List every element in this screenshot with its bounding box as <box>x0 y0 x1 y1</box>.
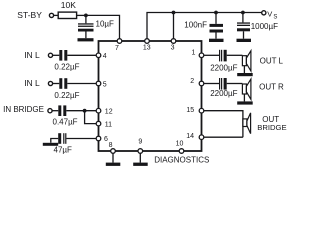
svg-text:7: 7 <box>115 45 119 52</box>
ground (pin 9) <box>133 163 148 166</box>
pin 12 <box>96 108 101 113</box>
svg-text:2: 2 <box>190 78 194 85</box>
node on Vs rail at pin 3 riser <box>172 11 176 15</box>
capacitor 2200uF (OUT L) <box>219 50 227 62</box>
pin 8 <box>111 149 116 154</box>
speaker OUT R <box>242 79 251 99</box>
terminal Vs <box>262 11 266 15</box>
terminal ST-BY <box>49 13 53 17</box>
pin 1 <box>199 53 204 58</box>
svg-text:9: 9 <box>138 138 142 145</box>
capacitor 100nF <box>210 24 224 33</box>
svg-text:8: 8 <box>109 142 113 149</box>
svg-text:13: 13 <box>143 45 151 52</box>
pin 6 <box>96 136 101 141</box>
wire pin 9 to ground <box>139 153 141 162</box>
svg-text:V: V <box>267 10 272 19</box>
svg-text:11: 11 <box>105 121 112 128</box>
node on Vs rail at 1000uF <box>241 11 245 15</box>
wire C 0.22uF to pin 4 <box>67 54 96 56</box>
wire pin 3 riser <box>173 13 175 39</box>
wire ST-BY terminal to R <box>54 14 58 16</box>
svg-text:47µF: 47µF <box>54 145 73 154</box>
wire C 1000uF to ground <box>243 31 245 38</box>
svg-text:OUT R: OUT R <box>259 83 284 92</box>
capacitor 0.22uF (lower) <box>59 78 67 89</box>
wire C 47uF to pin 6 <box>66 138 96 140</box>
svg-text:0.22µF: 0.22µF <box>54 63 79 72</box>
wire Vs rail to C 1000uF <box>242 13 244 23</box>
capacitor 10uF <box>78 23 94 31</box>
wire pin 2 to C 2200uF <box>204 83 219 85</box>
wire pin 1 to C 2200uF <box>204 54 219 56</box>
resistor 10K <box>58 12 76 18</box>
capacitor 2200uF (OUT R) <box>219 78 227 90</box>
IC U1 (power amplifier body) <box>99 41 202 151</box>
capacitor 47uF <box>58 133 66 144</box>
svg-text:OUT L: OUT L <box>260 56 284 65</box>
pin 13 <box>145 39 150 44</box>
pin 9 <box>138 149 143 154</box>
ground (speaker OUT L) <box>237 73 253 76</box>
wire C 2200uF to speaker OUT L <box>227 54 243 56</box>
node on Vs rail at 100nF <box>214 11 218 15</box>
ground (1000uF) <box>237 39 252 42</box>
svg-text:1: 1 <box>192 50 196 57</box>
svg-text:10µF: 10µF <box>96 19 115 28</box>
svg-text:5: 5 <box>103 82 107 89</box>
svg-text:IN L: IN L <box>24 78 40 88</box>
capacitor 1000uF <box>237 22 250 31</box>
svg-text:6: 6 <box>104 136 108 143</box>
wire R to node A <box>77 14 86 16</box>
terminal IN BRIDGE <box>48 109 52 113</box>
pin 14 <box>199 135 204 140</box>
pin 7 <box>117 39 122 44</box>
svg-text:2200µF: 2200µF <box>210 63 237 72</box>
svg-text:S: S <box>273 15 277 21</box>
svg-text:IN L: IN L <box>24 50 40 60</box>
pin 5 <box>96 81 101 86</box>
wire IN L to C 0.22uF <box>53 54 60 56</box>
wire C 10uF to ground <box>85 32 87 39</box>
svg-text:2200µF: 2200µF <box>210 89 237 98</box>
svg-text:0.47µF: 0.47µF <box>53 118 78 127</box>
pin 2 <box>199 81 204 86</box>
wire pin 15 to bridge speaker top <box>204 111 243 138</box>
wire speaker OUT R to ground <box>243 94 245 101</box>
wire IN L to C 0.22uF <box>53 83 60 85</box>
wire pin 8 to ground <box>112 153 114 162</box>
terminal IN L (lower) <box>48 81 52 85</box>
capacitor 0.47uF <box>58 105 66 116</box>
wire node A down to C 10uF <box>85 15 87 23</box>
wire C 100nF to ground <box>215 33 217 39</box>
wire speaker OUT L to ground <box>243 66 245 73</box>
pin 4 <box>96 53 101 58</box>
svg-text:15: 15 <box>186 107 194 114</box>
svg-text:14: 14 <box>186 133 194 140</box>
wire C 0.47uF to pin 12 <box>66 110 96 112</box>
svg-text:1000µF: 1000µF <box>251 22 278 31</box>
wire C 2200uF to speaker OUT R <box>227 83 243 85</box>
pin 10 <box>179 149 184 154</box>
ground (10uF) <box>78 38 94 41</box>
svg-text:0.22µF: 0.22µF <box>54 91 79 100</box>
pin 3 <box>171 39 176 44</box>
pin 15 <box>199 108 204 113</box>
ground (pin 8) <box>106 163 121 166</box>
svg-text:IN BRIDGE: IN BRIDGE <box>3 105 44 114</box>
node B (bridge input junction) <box>83 109 87 113</box>
ground (47uF) <box>43 143 58 146</box>
svg-text:4: 4 <box>103 53 107 60</box>
svg-text:100nF: 100nF <box>184 20 207 29</box>
svg-text:BRIDGE: BRIDGE <box>257 123 286 132</box>
svg-text:DIAGNOSTICS: DIAGNOSTICS <box>154 155 209 164</box>
ground (100nF) <box>209 39 224 42</box>
svg-text:10: 10 <box>176 141 184 148</box>
svg-text:ST-BY: ST-BY <box>17 10 42 20</box>
speaker OUT BRIDGE <box>243 113 251 134</box>
terminal IN L (upper) <box>48 53 52 57</box>
wire node B to pin 11 <box>85 111 97 124</box>
svg-text:3: 3 <box>171 45 175 52</box>
wire pin 14 to bridge speaker bottom <box>204 136 243 138</box>
pin 11 <box>96 121 101 126</box>
wire Vs rail <box>147 13 262 39</box>
capacitor 0.22uF (upper) <box>59 50 67 61</box>
node A (junction ST-BY net) <box>84 14 88 18</box>
wire Vs rail to C 100nF <box>215 13 217 24</box>
wire ground to C 47uF <box>51 139 58 143</box>
svg-text:12: 12 <box>105 109 113 116</box>
wire IN BRIDGE to C 0.47uF <box>52 110 58 112</box>
speaker OUT L <box>242 51 251 71</box>
wire C 0.22uF to pin 5 <box>67 83 96 85</box>
svg-text:10K: 10K <box>61 0 76 10</box>
wire node A to pin 7 <box>86 15 120 38</box>
ground (speaker OUT R) <box>237 101 253 104</box>
